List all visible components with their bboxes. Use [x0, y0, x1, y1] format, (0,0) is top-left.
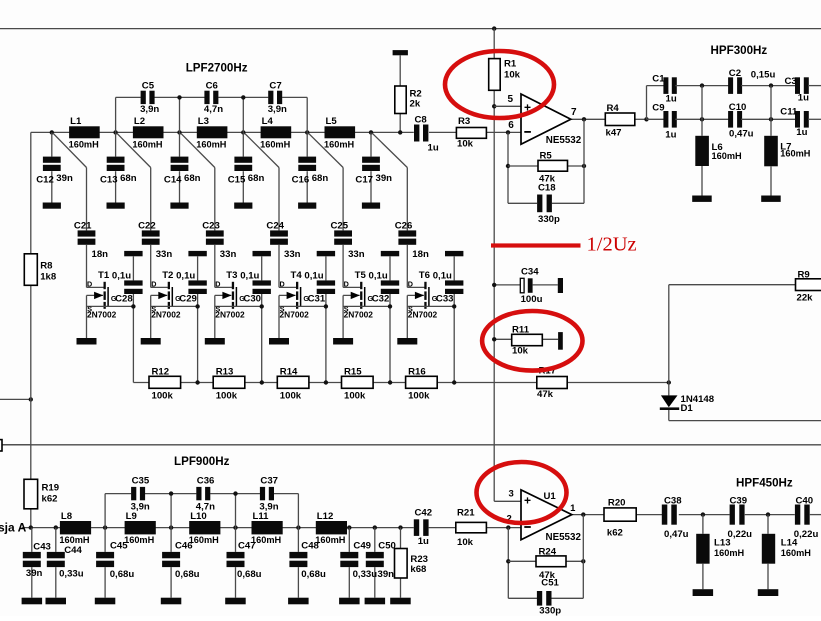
svg-text:R8: R8	[40, 261, 53, 272]
svg-text:C33: C33	[436, 294, 454, 305]
svg-text:160mH: 160mH	[780, 149, 810, 159]
svg-text:68n: 68n	[312, 173, 329, 184]
svg-text:k62: k62	[607, 527, 623, 538]
svg-text:160mH: 160mH	[124, 535, 154, 545]
svg-text:C44: C44	[64, 545, 82, 556]
svg-text:C3: C3	[785, 76, 797, 87]
svg-text:18n: 18n	[412, 249, 429, 260]
svg-text:k68: k68	[410, 564, 427, 575]
svg-text:C32: C32	[372, 294, 390, 305]
svg-text:2N7002: 2N7002	[87, 310, 117, 320]
svg-text:D: D	[87, 280, 92, 289]
svg-text:R19: R19	[42, 483, 60, 494]
svg-text:3,9n: 3,9n	[140, 104, 159, 115]
svg-text:3,9n: 3,9n	[131, 502, 150, 513]
svg-text:0,47u: 0,47u	[729, 129, 754, 140]
svg-text:C1: C1	[652, 74, 665, 85]
svg-text:2N7002: 2N7002	[280, 310, 310, 320]
svg-text:R16: R16	[408, 367, 426, 378]
svg-text:C24: C24	[266, 221, 284, 232]
svg-text:R11: R11	[512, 324, 530, 335]
svg-text:L1: L1	[70, 116, 82, 127]
svg-text:T4: T4	[291, 270, 303, 281]
svg-text:T1: T1	[98, 270, 110, 281]
svg-text:1u: 1u	[418, 536, 429, 547]
svg-text:R20: R20	[608, 497, 626, 508]
svg-text:0,22u: 0,22u	[728, 529, 753, 540]
svg-text:160mH: 160mH	[324, 139, 354, 149]
svg-text:33n: 33n	[284, 249, 301, 260]
svg-text:22k: 22k	[797, 293, 814, 304]
svg-text:C43: C43	[33, 542, 51, 553]
svg-text:3,9n: 3,9n	[259, 502, 278, 513]
svg-text:L8: L8	[61, 511, 73, 522]
svg-text:HPF300Hz: HPF300Hz	[711, 44, 768, 57]
svg-text:330p: 330p	[539, 606, 561, 617]
svg-text:C45: C45	[110, 541, 128, 552]
svg-text:100k: 100k	[280, 391, 302, 402]
svg-text:0,33u: 0,33u	[353, 569, 378, 580]
svg-text:L5: L5	[326, 116, 338, 127]
svg-text:R14: R14	[280, 367, 298, 378]
svg-text:160mH: 160mH	[260, 139, 290, 149]
svg-text:0,1u: 0,1u	[240, 270, 259, 281]
svg-text:39n: 39n	[378, 569, 395, 580]
svg-text:HPF450Hz: HPF450Hz	[736, 477, 793, 490]
svg-text:C2: C2	[729, 68, 741, 79]
svg-text:0,68u: 0,68u	[301, 569, 326, 580]
svg-text:L9: L9	[126, 511, 137, 522]
svg-text:3,9n: 3,9n	[268, 104, 287, 115]
svg-text:D1: D1	[681, 403, 694, 414]
svg-text:C10: C10	[729, 102, 747, 113]
svg-text:C26: C26	[395, 221, 413, 232]
svg-text:C37: C37	[260, 476, 278, 487]
svg-text:C50: C50	[378, 541, 396, 552]
svg-text:3: 3	[509, 489, 514, 500]
svg-text:160mH: 160mH	[189, 535, 219, 545]
svg-text:T2: T2	[162, 270, 173, 281]
svg-text:C11: C11	[780, 106, 798, 117]
svg-text:C42: C42	[415, 508, 433, 519]
svg-text:C6: C6	[206, 80, 218, 91]
svg-text:C35: C35	[132, 476, 150, 487]
svg-text:68n: 68n	[248, 173, 265, 184]
svg-text:C47: C47	[238, 541, 256, 552]
svg-text:LPF2700Hz: LPF2700Hz	[186, 61, 248, 74]
svg-text:C30: C30	[243, 294, 261, 305]
svg-text:0,33u: 0,33u	[59, 569, 84, 580]
svg-text:R13: R13	[216, 367, 234, 378]
svg-text:C8: C8	[415, 115, 428, 126]
svg-text:C23: C23	[202, 221, 220, 232]
svg-text:39n: 39n	[26, 568, 43, 579]
svg-text:160mH: 160mH	[315, 535, 345, 545]
svg-text:C51: C51	[541, 578, 559, 589]
svg-text:L10: L10	[190, 511, 207, 522]
svg-text:2N7002: 2N7002	[215, 310, 245, 320]
svg-text:0,22u: 0,22u	[794, 529, 819, 540]
svg-text:100k: 100k	[344, 391, 366, 402]
svg-text:39n: 39n	[376, 173, 393, 184]
svg-text:C17: C17	[355, 175, 373, 186]
svg-text:sja A: sja A	[0, 521, 27, 535]
svg-text:R24: R24	[539, 546, 557, 557]
svg-text:L4: L4	[262, 116, 274, 127]
svg-text:T3: T3	[226, 270, 237, 281]
svg-text:C49: C49	[353, 541, 371, 552]
svg-text:C36: C36	[197, 476, 215, 487]
svg-text:C16: C16	[292, 175, 310, 186]
svg-text:L2: L2	[134, 116, 145, 127]
svg-text:k47: k47	[606, 127, 622, 138]
svg-text:6: 6	[508, 120, 514, 131]
svg-text:33n: 33n	[220, 249, 237, 260]
svg-text:T6: T6	[419, 270, 430, 281]
svg-text:1u: 1u	[798, 92, 809, 103]
svg-text:1k8: 1k8	[40, 272, 57, 283]
svg-text:0,1u: 0,1u	[433, 270, 452, 281]
svg-text:R3: R3	[458, 116, 470, 127]
svg-text:C14: C14	[164, 175, 182, 186]
svg-text:C28: C28	[115, 294, 133, 305]
svg-text:10k: 10k	[457, 537, 474, 548]
svg-text:C40: C40	[796, 496, 814, 507]
svg-text:C9: C9	[652, 103, 664, 114]
svg-text:39n: 39n	[56, 173, 73, 184]
svg-text:R9: R9	[798, 269, 810, 280]
svg-text:k62: k62	[42, 494, 58, 505]
svg-text:D: D	[344, 280, 349, 289]
svg-text:C21: C21	[74, 221, 92, 232]
svg-text:100k: 100k	[216, 391, 238, 402]
svg-text:C5: C5	[142, 80, 155, 91]
svg-text:330p: 330p	[538, 214, 560, 225]
svg-text:0,68u: 0,68u	[175, 569, 200, 580]
svg-text:0,1u: 0,1u	[304, 270, 323, 281]
svg-text:0,1u: 0,1u	[176, 270, 195, 281]
svg-text:NE5532: NE5532	[546, 532, 582, 543]
svg-text:L11: L11	[253, 511, 270, 522]
svg-text:7: 7	[571, 107, 577, 118]
svg-text:C12: C12	[36, 175, 54, 186]
svg-text:1u: 1u	[665, 129, 676, 140]
svg-text:R5: R5	[540, 150, 553, 161]
svg-text:C29: C29	[179, 294, 197, 305]
svg-text:C46: C46	[175, 541, 193, 552]
svg-text:L12: L12	[317, 511, 334, 522]
svg-text:1u: 1u	[428, 143, 439, 154]
svg-text:10k: 10k	[512, 346, 529, 357]
svg-text:R15: R15	[344, 367, 362, 378]
svg-text:L14: L14	[781, 538, 798, 549]
svg-text:C15: C15	[228, 175, 246, 186]
svg-text:160mH: 160mH	[712, 151, 742, 161]
svg-text:160mH: 160mH	[196, 139, 226, 149]
svg-text:1u: 1u	[796, 127, 807, 138]
svg-text:0,68u: 0,68u	[110, 569, 135, 580]
svg-text:R12: R12	[152, 367, 170, 378]
svg-text:33n: 33n	[156, 249, 173, 260]
svg-text:L3: L3	[198, 116, 209, 127]
svg-text:33n: 33n	[348, 249, 365, 260]
svg-text:D: D	[151, 280, 156, 289]
svg-text:C13: C13	[100, 175, 118, 186]
svg-text:R4: R4	[607, 103, 620, 114]
svg-text:160mH: 160mH	[781, 548, 811, 558]
svg-text:160mH: 160mH	[132, 139, 162, 149]
svg-text:C38: C38	[664, 496, 682, 507]
svg-text:LPF900Hz: LPF900Hz	[174, 455, 230, 468]
svg-text:1u: 1u	[666, 94, 677, 105]
svg-text:68n: 68n	[184, 173, 201, 184]
svg-text:4,7n: 4,7n	[204, 104, 223, 115]
svg-text:+: +	[524, 494, 531, 508]
svg-text:U1: U1	[544, 491, 557, 502]
svg-text:0,1u: 0,1u	[369, 270, 388, 281]
svg-text:C25: C25	[330, 221, 348, 232]
svg-text:0,15u: 0,15u	[751, 70, 776, 81]
svg-text:D: D	[280, 280, 285, 289]
svg-text:2N7002: 2N7002	[408, 310, 438, 320]
svg-text:D: D	[215, 280, 220, 289]
svg-text:NE5532: NE5532	[546, 135, 582, 146]
svg-text:C7: C7	[269, 80, 281, 91]
svg-text:0,47u: 0,47u	[664, 529, 689, 540]
svg-text:18n: 18n	[92, 249, 109, 260]
svg-text:C31: C31	[308, 294, 326, 305]
svg-text:1: 1	[570, 503, 576, 514]
svg-text:47k: 47k	[537, 389, 554, 400]
svg-text:C39: C39	[730, 496, 748, 507]
svg-text:2k: 2k	[410, 99, 421, 110]
svg-text:C48: C48	[301, 541, 319, 552]
svg-text:L13: L13	[714, 538, 731, 549]
svg-text:2N7002: 2N7002	[344, 310, 374, 320]
svg-text:68n: 68n	[120, 173, 137, 184]
svg-text:160mH: 160mH	[714, 548, 744, 558]
svg-text:0,1u: 0,1u	[112, 270, 131, 281]
svg-text:T5: T5	[355, 270, 367, 281]
svg-text:100k: 100k	[152, 391, 174, 402]
svg-text:100u: 100u	[521, 294, 543, 305]
svg-text:160mH: 160mH	[59, 535, 89, 545]
svg-text:R21: R21	[457, 508, 475, 519]
svg-text:10k: 10k	[504, 70, 521, 81]
svg-text:D: D	[408, 280, 413, 289]
svg-text:C18: C18	[538, 183, 556, 194]
svg-text:160mH: 160mH	[69, 139, 99, 149]
svg-text:100k: 100k	[408, 391, 430, 402]
svg-text:R1: R1	[504, 59, 517, 70]
svg-text:5: 5	[508, 94, 514, 105]
svg-text:2N7002: 2N7002	[151, 310, 181, 320]
svg-text:4,7n: 4,7n	[196, 502, 215, 513]
svg-text:C34: C34	[521, 267, 539, 278]
svg-text:C22: C22	[138, 221, 156, 232]
svg-text:0,68u: 0,68u	[237, 569, 262, 580]
svg-text:10k: 10k	[457, 139, 474, 150]
svg-text:1/2Uz: 1/2Uz	[587, 234, 637, 256]
